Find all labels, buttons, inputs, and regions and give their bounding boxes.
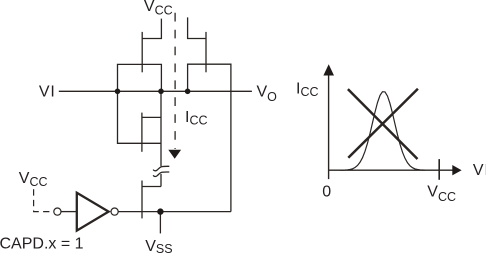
transistor Q4 (bottom NMOS) drain bar: [142, 186, 161, 188]
buffer U1 triangle: [77, 193, 109, 231]
svg-text:VCC: VCC: [19, 170, 48, 189]
svg-text:VI: VI: [473, 162, 486, 179]
wire VSS stub: [159, 212, 161, 234]
buffer U1 input bubble: [54, 208, 61, 215]
squiggle break wave 1: [153, 166, 169, 171]
transistor Q2 gate bracket and right-side wire down to VSS rail: [188, 64, 231, 211]
graph x-axis arrowhead: [452, 165, 461, 175]
svg-text:ICC: ICC: [296, 80, 319, 98]
graph y-axis: [328, 72, 330, 179]
svg-text:VO: VO: [257, 84, 278, 104]
graph bell curve: [340, 92, 425, 171]
transistor Q3 (middle-left NMOS) drain leg from VI node down to squiggle: [160, 91, 162, 166]
svg-text:VI: VI: [39, 83, 56, 100]
transistor Q1 gate bracket: [118, 64, 162, 91]
graph VCC tick: [438, 159, 440, 180]
svg-text:ICC: ICC: [185, 109, 208, 127]
ICC arrowhead: [168, 150, 181, 159]
node dot VI/gate junction: [115, 89, 121, 95]
graph descending line: [348, 89, 418, 159]
graph ascending line: [348, 89, 418, 158]
wire below squiggle: [160, 174, 162, 187]
squiggle break wave 2: [153, 172, 169, 177]
transistor Q3 gate bracket: [118, 91, 162, 143]
svg-text:CAPD.x = 1: CAPD.x = 1: [0, 235, 84, 252]
dashed ICC current path line: [174, 13, 176, 149]
transistor Q4 channel: [141, 181, 143, 219]
svg-text:VCC: VCC: [144, 0, 173, 17]
graph x-axis: [329, 169, 453, 171]
buffer U1 output bubble: [111, 208, 118, 215]
svg-text:0: 0: [322, 183, 331, 200]
dashed VCC wire to buffer input: [34, 189, 54, 211]
node dot center junction: [158, 89, 164, 95]
transistor Q1 channel: [141, 32, 143, 72]
svg-text:VCC: VCC: [427, 183, 456, 203]
transistor Q3 drain bar: [142, 116, 161, 118]
wire buffer input: [61, 211, 76, 213]
svg-text:VSS: VSS: [145, 238, 172, 254]
transistor Q1 (top-left PMOS) source L-wire from VCC: [142, 19, 161, 39]
transistor Q2 channel: [205, 32, 207, 72]
graph y-axis arrowhead: [323, 64, 334, 75]
transistor Q2 (top-right PMOS) source L-wire from VCC: [188, 17, 206, 38]
wire VI input lead (VI to VO rail): [59, 90, 252, 92]
node dot VO/gate junction: [185, 89, 191, 95]
node dot VSS junction: [157, 208, 163, 214]
transistor Q3 channel: [141, 113, 143, 152]
wire VSS rail: [118, 211, 231, 213]
graph: ICC vs VI: [329, 72, 453, 180]
